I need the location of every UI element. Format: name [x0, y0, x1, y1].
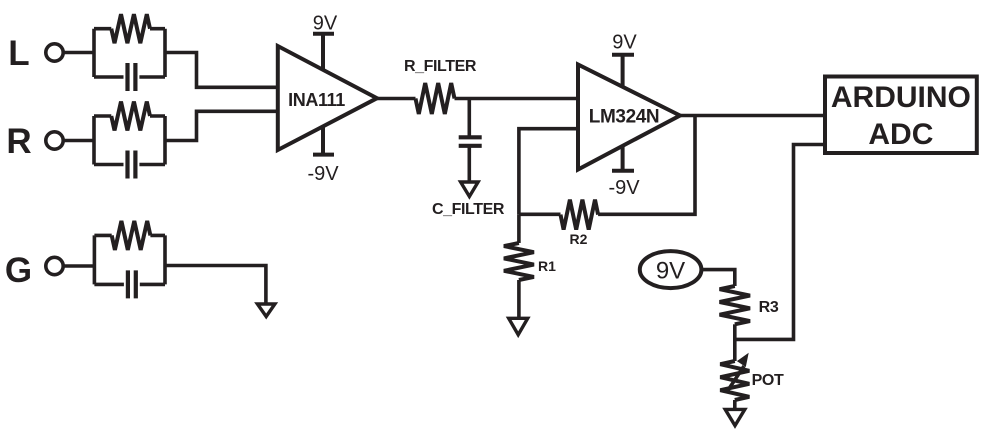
svg-text:LM324N: LM324N: [589, 107, 659, 128]
wire (R1 to ground): [517, 280, 521, 318]
wire (LM324N output to ARDUINO ADC): [680, 114, 823, 118]
wire (L network frame): [94, 29, 165, 77]
block ARDUINO ADC: [825, 77, 977, 154]
-9V supply (INA111): [313, 126, 334, 155]
wire (POT to ground): [733, 400, 737, 409]
resistor (L input, top of network): [111, 14, 150, 43]
op-amp U2 LM324N: [578, 65, 680, 170]
wire (L terminal to network): [63, 51, 94, 55]
wire (R network to INA111 - input): [165, 111, 278, 140]
wire (C_FILTER to ground): [467, 146, 471, 182]
terminal G: [46, 257, 63, 274]
resistor R1: [504, 243, 534, 280]
svg-text:C_FILTER: C_FILTER: [432, 201, 505, 218]
svg-text:L: L: [8, 34, 29, 73]
wire (G network frame): [94, 235, 165, 284]
resistor R_FILTER: [416, 83, 455, 114]
svg-text:R3: R3: [759, 299, 779, 316]
svg-text:R2: R2: [570, 231, 588, 247]
resistor R2 (feedback): [561, 200, 599, 230]
ground (R1): [509, 318, 528, 334]
wire (9V source to R3): [701, 270, 735, 286]
wire (R terminal to network): [63, 139, 94, 143]
svg-text:INA111: INA111: [288, 90, 345, 110]
battery 9V source: [640, 251, 702, 288]
wire (node down to C_FILTER): [467, 99, 471, 138]
terminal L: [46, 44, 63, 61]
+9V supply (INA111): [313, 34, 334, 70]
svg-text:-9V: -9V: [307, 163, 339, 185]
wiper arrow (POT): [727, 366, 745, 393]
wire (R3 to POT node): [733, 324, 737, 361]
capacitor (G input, bottom of network): [128, 270, 136, 298]
resistor (G input, top of network): [112, 221, 151, 250]
op-amp U1 INA111 instrumentation amplifier: [278, 46, 377, 150]
svg-text:-9V: -9V: [608, 177, 640, 199]
svg-text:ADC: ADC: [868, 118, 933, 151]
wire (node to ARDUINO ADC lower input): [735, 145, 823, 340]
wire (L network to INA111 + input): [165, 53, 278, 88]
wire (R network frame): [94, 116, 165, 165]
resistor (R input, top of network): [111, 102, 150, 131]
wire (R_FILTER to LM324N + input, node with C_FILTER): [455, 97, 579, 101]
wire (INA111 output): [377, 97, 416, 101]
wire (G network to ground): [165, 266, 266, 304]
wire (output node down to feedback): [598, 116, 695, 215]
wire (LM324N inverting input): [519, 129, 578, 215]
capacitor C_FILTER: [459, 137, 482, 146]
wire (R2 left lead to node): [519, 213, 561, 217]
svg-text:R1: R1: [538, 258, 556, 274]
svg-text:POT: POT: [752, 372, 784, 389]
wire (G terminal to network): [63, 264, 94, 268]
ground (POT): [725, 409, 745, 425]
terminal R: [46, 132, 63, 149]
svg-text:9V: 9V: [656, 258, 685, 285]
resistor R3: [720, 286, 750, 324]
ground (C_FILTER): [461, 182, 479, 197]
wire (node down to R1): [517, 214, 521, 243]
ground (G): [257, 304, 275, 317]
svg-text:9V: 9V: [313, 13, 338, 35]
capacitor (R input, bottom of network): [128, 151, 136, 179]
svg-text:ARDUINO: ARDUINO: [831, 81, 971, 114]
+9V supply (LM324N): [612, 55, 634, 87]
potentiometer POT: [720, 361, 749, 400]
svg-text:9V: 9V: [612, 32, 637, 54]
capacitor (L input, bottom of network): [128, 63, 136, 91]
svg-text:R_FILTER: R_FILTER: [404, 58, 477, 75]
svg-text:R: R: [6, 122, 31, 161]
-9V supply (LM324N): [612, 146, 634, 171]
svg-text:G: G: [5, 251, 32, 290]
